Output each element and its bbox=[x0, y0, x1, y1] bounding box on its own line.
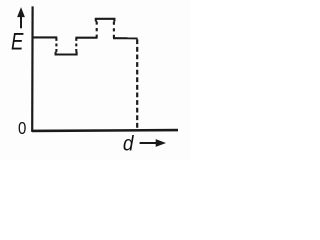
axis direction arrow (up) head bbox=[17, 7, 25, 17]
step segment C at level E (bump to end) bbox=[113, 37, 138, 39]
svg-text:0: 0 bbox=[18, 118, 26, 138]
dashed drop, right side of bump bbox=[113, 20, 115, 39]
svg-text:E: E bbox=[11, 29, 24, 56]
dashed drop, left side of dip bbox=[55, 38, 57, 54]
axis direction arrow (up) stem bbox=[20, 14, 22, 29]
d direction arrow stem bbox=[140, 142, 158, 144]
bump top segment bbox=[96, 19, 115, 22]
dashed vertical from end of curve down to x-axis at d bbox=[136, 39, 138, 129]
svg-text:d: d bbox=[123, 132, 135, 156]
dashed rise, left side of bump bbox=[96, 20, 98, 38]
dashed rise, right side of dip bbox=[75, 38, 77, 54]
d direction arrow head bbox=[156, 139, 166, 147]
step segment A at level E (axis to first drop) bbox=[33, 36, 58, 38]
x-axis bbox=[32, 129, 178, 132]
y-axis bbox=[31, 6, 34, 131]
dip bottom segment bbox=[56, 52, 77, 55]
step segment B at level E (between dip and bump) bbox=[75, 37, 97, 39]
